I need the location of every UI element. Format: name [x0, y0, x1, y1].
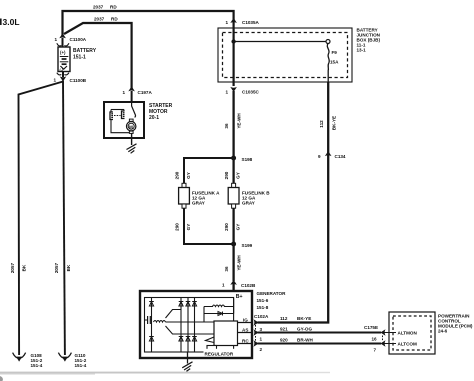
svg-text:151-6: 151-6 [257, 298, 269, 303]
svg-text:M: M [129, 124, 133, 129]
svg-text:112: 112 [280, 316, 288, 321]
svg-text:C102A: C102A [254, 314, 269, 319]
svg-text:36: 36 [224, 266, 229, 272]
svg-text:2: 2 [260, 347, 263, 352]
svg-text:BK: BK [66, 264, 71, 271]
svg-text:13-1: 13-1 [357, 48, 367, 53]
svg-text:C1100B: C1100B [70, 78, 87, 83]
svg-text:C1035C: C1035C [242, 90, 260, 95]
svg-text:920: 920 [280, 338, 288, 343]
svg-text:151-8: 151-8 [257, 305, 269, 310]
svg-text:GY: GY [236, 172, 241, 179]
svg-text:GY-OG: GY-OG [297, 327, 312, 332]
svg-text:BK: BK [22, 264, 27, 271]
svg-text:1: 1 [222, 283, 225, 288]
svg-text:GENERATOR: GENERATOR [257, 291, 287, 296]
svg-text:2037: 2037 [93, 5, 104, 10]
svg-text:9: 9 [318, 154, 321, 159]
svg-text:GY: GY [186, 224, 191, 231]
svg-text:3.0L: 3.0L [3, 17, 20, 27]
svg-text:C102B: C102B [241, 283, 256, 288]
svg-text:ALTCOM: ALTCOM [398, 342, 417, 347]
svg-text:15A: 15A [330, 60, 339, 65]
svg-text:REGULATOR: REGULATOR [205, 351, 234, 356]
svg-text:BATTERY: BATTERY [73, 48, 97, 54]
svg-text:GRAY: GRAY [192, 201, 205, 206]
svg-text:RC: RC [242, 339, 249, 344]
svg-text:1: 1 [54, 78, 57, 83]
svg-text:BR-WH: BR-WH [297, 338, 314, 343]
svg-text:112: 112 [319, 120, 324, 128]
svg-text:GY: GY [236, 224, 241, 231]
svg-text:C1035A: C1035A [242, 20, 260, 25]
svg-text:1: 1 [55, 37, 58, 42]
svg-text:GRAY: GRAY [242, 201, 255, 206]
svg-text:C134: C134 [335, 154, 346, 159]
svg-text:1: 1 [123, 90, 126, 95]
svg-text:2037: 2037 [94, 17, 105, 22]
svg-text:BK-YE: BK-YE [297, 316, 311, 321]
svg-text:290: 290 [175, 171, 180, 179]
svg-text:2057: 2057 [54, 262, 59, 273]
svg-text:1: 1 [226, 20, 229, 25]
svg-text:7: 7 [374, 348, 377, 353]
svg-text:S199: S199 [242, 243, 253, 248]
svg-text:RD: RD [110, 5, 117, 10]
svg-text:20-1: 20-1 [149, 115, 159, 121]
svg-text:921: 921 [280, 327, 288, 332]
svg-text:YE-WH: YE-WH [237, 255, 242, 271]
svg-text:151-4: 151-4 [75, 363, 87, 368]
svg-text:C197A: C197A [138, 90, 153, 95]
svg-text:C1100A: C1100A [70, 37, 87, 42]
svg-text:S198: S198 [242, 157, 253, 162]
svg-text:36: 36 [224, 123, 229, 129]
svg-text:151-1: 151-1 [73, 55, 86, 61]
svg-text:290: 290 [224, 171, 229, 179]
svg-text:151-4: 151-4 [31, 363, 43, 368]
svg-text:GY: GY [186, 172, 191, 179]
svg-text:C175E: C175E [364, 325, 378, 330]
svg-text:IG: IG [243, 318, 248, 323]
svg-text:(+): (+) [60, 50, 66, 55]
svg-text:2057: 2057 [10, 262, 15, 273]
svg-text:1: 1 [260, 337, 263, 342]
svg-text:F9: F9 [332, 50, 338, 55]
svg-text:B+: B+ [236, 294, 243, 300]
svg-text:290: 290 [175, 223, 180, 231]
svg-text:YE-WH: YE-WH [237, 113, 242, 129]
svg-text:16: 16 [372, 337, 378, 342]
svg-text:290: 290 [224, 223, 229, 231]
svg-text:3: 3 [260, 327, 263, 332]
svg-text:BK-YE: BK-YE [332, 116, 337, 130]
svg-text:RD: RD [111, 17, 118, 22]
svg-text:AS: AS [242, 328, 248, 333]
svg-text:24-6: 24-6 [438, 329, 448, 334]
svg-text:ALTMON: ALTMON [398, 331, 418, 336]
svg-text:1: 1 [226, 90, 229, 95]
